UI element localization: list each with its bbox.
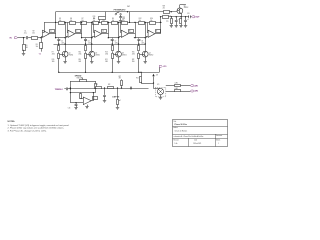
wire + input jog stage 2 <box>93 36 95 38</box>
svg-text:C7: C7 <box>115 40 117 42</box>
resistor R19 LFO feedback <box>80 93 84 99</box>
svg-text:R26: R26 <box>93 16 96 18</box>
bias node Vb <box>39 48 42 55</box>
signal wire into stage 3 <box>108 37 119 38</box>
wire - input stage 1 <box>66 22 69 32</box>
port TREMOLO <box>55 89 66 91</box>
svg-text:R9: R9 <box>112 18 114 20</box>
wire + input row LFO <box>70 102 83 104</box>
ground below R1 <box>22 50 25 56</box>
resistor R17 below Q5 <box>180 17 182 26</box>
resistor R13 bias stage 3 <box>105 44 113 55</box>
resistor R26 22k feedback <box>93 12 106 23</box>
svg-text:.047u: .047u <box>115 42 119 44</box>
capacitor C1 .01u <box>24 31 28 40</box>
resistor R27 lamp driver <box>119 76 123 89</box>
svg-text:Q1: Q1 <box>69 53 71 55</box>
capacitor C14 tremolo <box>67 88 71 91</box>
svg-text:R29: R29 <box>169 14 172 16</box>
wire U2a ground pin <box>87 105 89 107</box>
potentiometer R23 depth <box>117 88 121 107</box>
svg-text:R3: R3 <box>36 44 38 46</box>
label PH/VIBRATO <box>114 8 126 11</box>
resistor gate stage 4 <box>132 51 140 72</box>
svg-text:.01u: .01u <box>24 33 27 35</box>
transistor Q2 2N5952 <box>89 51 100 57</box>
op-amp U1 stage 4 <box>148 30 160 38</box>
node column stage 3 input <box>118 22 119 51</box>
svg-text:4K7: 4K7 <box>119 78 122 80</box>
svg-text:NOTES:: NOTES: <box>8 121 16 123</box>
wire source Q1 <box>65 57 67 61</box>
ground below R17 <box>179 26 182 28</box>
LFO gate bus <box>59 72 160 73</box>
svg-text:R10: R10 <box>79 51 82 53</box>
node column buffer output <box>55 12 56 39</box>
resistor R21 on output line <box>96 84 102 89</box>
capacitor C7 .047u <box>111 38 118 45</box>
lamp LP1 <box>157 84 164 94</box>
label SPEED <box>75 76 82 78</box>
resistor R3 bias feed <box>36 38 43 49</box>
svg-text:2N5952: 2N5952 <box>184 7 189 9</box>
node column stage2 output to rail <box>108 22 109 23</box>
wire gate lead Q3 <box>112 54 115 56</box>
svg-text:.047u: .047u <box>88 42 92 44</box>
capacitor C10 below switch <box>119 15 125 20</box>
junction gate bus stage 3 <box>112 72 113 73</box>
svg-text:R21: R21 <box>96 84 99 86</box>
svg-text:R7: R7 <box>52 51 54 53</box>
ground below Q4 <box>144 62 147 64</box>
wire C1 to R2 <box>28 37 31 39</box>
junction gate bus stage 1 <box>58 72 59 73</box>
svg-text:SW1: SW1 <box>127 6 130 8</box>
svg-text:1. Optional TL062 (U3) to byp: 1. Optional TL062 (U3) to bypass toggle,… <box>8 124 70 127</box>
svg-text:R1: R1 <box>26 45 28 47</box>
wire source Q4 <box>145 57 147 61</box>
wire LFO mid line <box>70 92 95 94</box>
wire IN to C1 <box>18 37 26 38</box>
node column stage 1 input <box>64 22 65 51</box>
ground below U2a <box>85 107 88 109</box>
svg-text:2N5952: 2N5952 <box>149 55 154 57</box>
svg-text:22k: 22k <box>93 18 95 20</box>
feedback rail <box>44 22 162 24</box>
ground below C11 <box>175 26 178 28</box>
wire to OUT <box>190 16 191 18</box>
svg-text:1.0b: 1.0b <box>175 143 178 145</box>
output port OUT <box>192 16 201 19</box>
resistor R11 10k on rail <box>122 18 128 25</box>
svg-text:Phase 90 Vibe: Phase 90 Vibe <box>175 124 187 126</box>
wire last stage riser <box>160 17 161 23</box>
signal wire into stage 2 <box>82 37 93 38</box>
junction depth column <box>117 87 118 88</box>
ground below depth pot <box>116 108 119 110</box>
node column stage 2 input <box>91 22 92 51</box>
port LDR2 <box>190 90 198 93</box>
op-amp U1 stage 3 <box>121 30 133 38</box>
svg-text:2N5952: 2N5952 <box>69 55 74 57</box>
svg-text:SPEED: SPEED <box>75 76 82 78</box>
power +9V symbol <box>152 74 158 83</box>
svg-text:2N5952: 2N5952 <box>122 55 127 57</box>
svg-text:LDR2: LDR2 <box>194 91 198 93</box>
ground below C15 <box>103 101 106 103</box>
ground below Q2 <box>90 62 93 64</box>
svg-text:PH/VIBRATO: PH/VIBRATO <box>114 8 126 11</box>
svg-text:Revision: Revision <box>174 140 179 142</box>
capacitor C11 .01u <box>175 17 180 26</box>
svg-text:22k: 22k <box>163 8 165 10</box>
svg-text:Chuck D. Bones: Chuck D. Bones <box>175 130 188 132</box>
svg-text:Q4: Q4 <box>149 53 151 55</box>
wire gate lead Q1 <box>59 54 62 56</box>
wire - input stage 4 <box>146 22 149 32</box>
svg-text:3b: 3b <box>129 31 131 33</box>
resistor R15 bias stage 4 <box>132 44 140 55</box>
wire Q5 to output line <box>180 13 181 17</box>
resistor R6 10k on rail <box>70 18 76 25</box>
junction top line Q5 <box>171 11 172 12</box>
wire buffer + jog <box>41 36 43 38</box>
label SW1 <box>127 6 130 8</box>
port LDR1 <box>190 85 198 88</box>
svg-text:10k: 10k <box>59 20 62 22</box>
svg-text:Q5: Q5 <box>184 5 186 7</box>
svg-text:R14: R14 <box>150 18 153 20</box>
signal wire into stage 4 <box>134 37 146 38</box>
svg-text:C8: C8 <box>141 40 143 42</box>
svg-text:R16: R16 <box>166 19 169 21</box>
LFO output line <box>70 87 149 88</box>
op-amp U1 stage 1 <box>68 30 81 38</box>
wire - input stage 2 <box>94 22 95 32</box>
junction C15 <box>104 87 105 88</box>
resistor gate stage 3 <box>105 51 113 72</box>
svg-text:3M9: 3M9 <box>79 61 82 63</box>
bias rail Vb <box>54 44 146 46</box>
wire output stage 1 <box>75 22 82 39</box>
svg-text:1b: 1b <box>76 31 78 33</box>
svg-text:1a: 1a <box>50 31 52 33</box>
svg-text:10k: 10k <box>93 20 96 22</box>
svg-text:.1u: .1u <box>122 18 124 20</box>
svg-text:470k: 470k <box>52 53 55 55</box>
top feedback line <box>56 11 177 13</box>
svg-text:+9V: +9V <box>156 75 159 77</box>
node column stage 4 input <box>145 22 146 51</box>
junction top line drop <box>127 11 130 23</box>
svg-text:.047u: .047u <box>61 42 65 44</box>
svg-text:R22: R22 <box>108 84 111 86</box>
wire lamp feed <box>154 83 161 89</box>
svg-text:DEPTH: DEPTH <box>112 97 119 99</box>
svg-text:.047u: .047u <box>141 42 145 44</box>
junction lamp column <box>153 82 154 83</box>
notes text block <box>8 121 70 132</box>
svg-text:10k: 10k <box>102 20 105 22</box>
resistor R16 150k <box>166 17 173 26</box>
junction R16 column <box>171 16 172 17</box>
optocoupler dashed enclosure <box>155 87 166 97</box>
wire output stage 2 <box>102 22 109 39</box>
resistor gate stage 1 <box>52 51 60 72</box>
svg-text:R19: R19 <box>52 59 55 61</box>
svg-text:10k: 10k <box>32 33 35 35</box>
svg-text:R27: R27 <box>119 76 122 78</box>
svg-text:10k: 10k <box>36 46 39 48</box>
signal wire into stage 1 <box>56 37 66 38</box>
svg-text:C13: C13 <box>187 13 190 15</box>
switch SW1 phase/vibrato <box>115 12 121 15</box>
svg-text:R15: R15 <box>132 51 135 53</box>
svg-text:R6: R6 <box>70 18 72 20</box>
wire + input jog stage 3 <box>120 36 122 38</box>
resistor R7 10k on rail <box>81 18 87 25</box>
svg-text:LDR1: LDR1 <box>194 85 198 87</box>
resistor R2 10k <box>32 31 38 40</box>
svg-text:28 Feb 2021: 28 Feb 2021 <box>193 143 201 145</box>
ground below Q1 <box>63 62 66 64</box>
svg-text:R20: R20 <box>79 59 82 61</box>
wire buffer output <box>49 33 55 35</box>
svg-text:LDR1: LDR1 <box>175 82 179 84</box>
wire gate lead Q4 <box>139 54 142 56</box>
svg-text:R13: R13 <box>105 51 108 53</box>
junction C11 column <box>176 16 177 17</box>
capacitor C16 lfo timing <box>75 102 78 107</box>
svg-text:R22: R22 <box>132 59 135 61</box>
svg-text:470k: 470k <box>132 53 135 55</box>
op-amp U2a LFO <box>83 97 97 105</box>
svg-text:2N5952: 2N5952 <box>95 55 100 57</box>
wire source Q2 <box>91 57 93 61</box>
output line <box>160 16 189 17</box>
svg-text:3. For Phase 45, change C5-C8: 3. For Phase 45, change C5-C8 to .047u. <box>8 129 48 132</box>
resistor gate stage 2 <box>79 51 87 72</box>
capacitor C13 output <box>187 13 191 18</box>
capacitor C17 series lfo <box>131 87 132 90</box>
svg-text:C10: C10 <box>122 17 125 19</box>
resistor R14 10k on rail <box>150 18 156 25</box>
svg-text:Vb: Vb <box>39 54 41 56</box>
resistor R5 10k on rail <box>59 18 65 25</box>
svg-text:C1: C1 <box>24 31 26 33</box>
resistor R28 on top line <box>163 6 170 14</box>
label DEPTH <box>112 97 119 99</box>
junction C12 column <box>185 16 186 17</box>
svg-text:Q2: Q2 <box>95 53 97 55</box>
wire lamp to ground <box>160 95 162 98</box>
svg-text:3M9: 3M9 <box>105 61 108 63</box>
resistor R1 1M <box>23 38 29 51</box>
svg-text:R28: R28 <box>163 6 166 8</box>
svg-text:2. Phase shifter cap values a: 2. Phase shifter cap values are scaled f… <box>8 127 65 130</box>
junction gate bus stage 4 <box>138 72 139 73</box>
wire speed left column <box>70 81 71 103</box>
ground below C12 <box>184 26 187 28</box>
svg-text:LDR2: LDR2 <box>175 88 179 90</box>
capacitor C5 .047u <box>57 38 64 45</box>
transistor Q3 2N5952 <box>116 51 127 57</box>
resistor R8b 10k on rail <box>102 18 108 25</box>
capacitor C12 <box>184 17 189 26</box>
svg-text:C5: C5 <box>61 40 63 42</box>
transistor Q5 2N5952 vibrato switch <box>177 5 189 14</box>
resistor R29 on output line <box>163 14 172 18</box>
wire gate lead Q2 <box>86 54 89 56</box>
resistor R25 bus to lamp <box>136 72 141 83</box>
svg-text:TREMOLO: TREMOLO <box>55 89 64 91</box>
ground below C16 <box>68 108 78 110</box>
resistor R22 <box>108 84 114 89</box>
wire output stage 4 <box>155 22 161 34</box>
svg-text:470k: 470k <box>105 53 108 55</box>
svg-text:R7: R7 <box>82 18 84 20</box>
svg-text:R25: R25 <box>136 78 139 80</box>
capacitor C15 <box>103 88 106 100</box>
wire buffer - input <box>43 22 45 32</box>
resistor R8 10k on rail <box>93 18 99 25</box>
svg-text:10k: 10k <box>139 20 142 22</box>
label speed pot value <box>77 78 83 80</box>
svg-text:2b: 2b <box>102 31 104 33</box>
transistor Q4 2N5952 <box>142 51 153 57</box>
wire - input stage 3 <box>120 22 123 32</box>
resistor R10 bias stage 2 <box>79 44 87 55</box>
wire LFO output column <box>91 92 94 101</box>
ground below R16 <box>170 26 173 28</box>
svg-text:4b: 4b <box>156 31 158 33</box>
svg-text:LP1: LP1 <box>157 84 160 86</box>
junction gate bus stage 2 <box>85 72 86 73</box>
resistor R20 pot to node <box>95 81 97 93</box>
wire + input jog stage 4 <box>146 36 148 38</box>
capacitor C6 .047u <box>84 38 91 45</box>
op-amp U1a buffer <box>43 30 55 38</box>
ground below Q3 <box>117 62 120 64</box>
wire output stage 3 <box>128 22 135 39</box>
svg-text:3M9: 3M9 <box>132 61 135 63</box>
svg-text:C16: C16 <box>68 108 71 110</box>
svg-text:470k: 470k <box>79 53 82 55</box>
wire R25 branch <box>141 83 154 85</box>
svg-text:R21: R21 <box>105 59 108 61</box>
wire R2 to buffer <box>38 37 42 38</box>
svg-text:C6: C6 <box>88 40 90 42</box>
input port IN <box>10 37 18 40</box>
svg-text:10k: 10k <box>70 20 73 22</box>
op-amp U1 stage 2 <box>95 30 107 38</box>
wire source Q3 <box>118 57 120 61</box>
svg-text:3M9: 3M9 <box>52 61 55 63</box>
title block <box>173 120 228 147</box>
resistor R9 10k on rail <box>112 18 118 25</box>
svg-text:R5: R5 <box>59 18 61 20</box>
ground below lamp <box>159 98 162 100</box>
resistor R7 bias stage 1 <box>52 44 60 55</box>
resistor LDR1 <box>166 82 191 86</box>
svg-text:R2: R2 <box>33 31 35 33</box>
port LFO net <box>159 65 167 72</box>
resistor LDR2 <box>166 88 191 92</box>
svg-text:Q3: Q3 <box>122 53 124 55</box>
svg-text:150k: 150k <box>166 21 169 23</box>
svg-text:10k: 10k <box>81 20 84 22</box>
svg-text:R12: R12 <box>139 18 142 20</box>
potentiometer R18 speed <box>70 77 95 81</box>
ground below C10 <box>119 21 122 23</box>
svg-text:C12: C12 <box>187 19 190 21</box>
transistor Q1 2N5952 <box>62 51 73 57</box>
wire + input jog stage 1 <box>66 36 68 38</box>
svg-text:10k: 10k <box>112 20 115 22</box>
capacitor C8 .047u <box>137 38 144 45</box>
svg-text:10k: 10k <box>150 20 153 22</box>
resistor R12 10k on rail <box>139 18 145 25</box>
